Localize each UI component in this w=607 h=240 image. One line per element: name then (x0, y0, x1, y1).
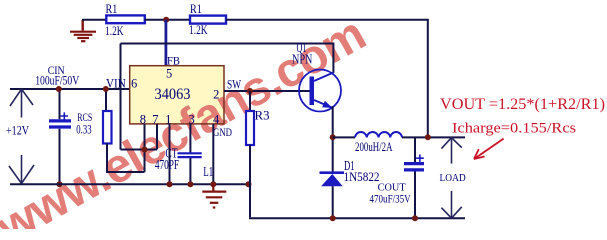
ground (top left) (70, 20, 96, 41)
wire bottom-left rail (10, 183, 249, 185)
wire Q1 collector rail (121, 44, 334, 74)
capacitor CIN (35, 63, 79, 185)
node gnd junction (210, 181, 216, 187)
source +12V (9, 89, 34, 184)
pin 1 stem (169, 124, 171, 184)
svg-text:34063: 34063 (155, 86, 191, 103)
resistor R1 (right) (189, 1, 226, 37)
pin 8 stem (144, 124, 146, 172)
svg-text:GND: GND (213, 125, 232, 139)
IC U1 34063 border and labels (106, 54, 241, 140)
load LOAD (441, 138, 461, 219)
node RCS top (103, 86, 109, 92)
wire FB vertical (164, 20, 167, 66)
wire pin8/pin7 link (121, 149, 158, 151)
wire VIN rail (10, 88, 130, 90)
resistor RCS (76, 89, 144, 172)
svg-text:L1: L1 (203, 164, 213, 179)
svg-text:NPN: NPN (292, 51, 313, 66)
node pin1 bottom (167, 181, 173, 187)
pin 4 stem (212, 124, 214, 184)
svg-text:VIN: VIN (106, 75, 126, 90)
node CIN bottom (57, 181, 63, 187)
transistor Q1 (292, 41, 341, 112)
node D1 anode (330, 215, 336, 221)
svg-text:5: 5 (166, 66, 172, 80)
svg-text:0.33: 0.33 (76, 122, 91, 137)
node output/VOUT (425, 134, 431, 140)
svg-text:470uF/35V: 470uF/35V (370, 191, 411, 205)
svg-text:Icharge=0.155/Rcs: Icharge=0.155/Rcs (452, 120, 576, 136)
inductor L1 200uH/2A (355, 132, 402, 154)
node CIN top (56, 86, 62, 92)
wire SW to base (224, 90, 311, 92)
wire VOUT feedback (top rail right + drop) (226, 20, 428, 138)
wire output rail (402, 136, 465, 138)
IC U1 34063 body fill (130, 66, 224, 124)
capacitor COUT (370, 137, 425, 218)
node SW/R3 (247, 88, 253, 94)
ground (bottom middle) (202, 184, 226, 207)
svg-text:R3: R3 (255, 108, 270, 123)
node pin8 junction (142, 147, 148, 153)
svg-text:1N5822: 1N5822 (344, 169, 380, 184)
node CT bottom (187, 181, 193, 187)
wire R1 to R1 (145, 19, 190, 21)
svg-text:R1: R1 (190, 1, 202, 16)
node COUT bottom (412, 215, 418, 221)
capacitor CT (155, 124, 202, 184)
svg-text:100uF/50V: 100uF/50V (35, 74, 79, 88)
node FB junction (163, 17, 169, 23)
svg-text:R1: R1 (106, 1, 118, 16)
svg-text:2: 2 (213, 88, 219, 102)
svg-text:1.2K: 1.2K (189, 22, 208, 37)
wire bottom-right rail (249, 217, 465, 219)
svg-text:FB: FB (167, 54, 180, 68)
svg-text:470PF: 470PF (155, 157, 180, 172)
svg-text:1.2K: 1.2K (105, 23, 124, 38)
diode D1 1N5822 (320, 158, 380, 218)
wire Q1 emitter to D1 (332, 106, 334, 172)
svg-text:200uH/2A: 200uH/2A (355, 140, 393, 154)
wire switch node to coil (333, 136, 355, 138)
pin 7 stem (156, 124, 158, 150)
svg-text:+12V: +12V (6, 122, 29, 137)
node switch (emitter/diode/coil) (330, 134, 336, 140)
resistor R3 (246, 91, 270, 217)
wire top rail (gnd to R1) (82, 19, 106, 21)
node R3 bottom-left rail (246, 181, 252, 187)
svg-text:VOUT =1.25*(1+R2/R1): VOUT =1.25*(1+R2/R1) (440, 96, 605, 113)
wire VIN-pin8 vertical (120, 44, 122, 150)
svg-text:LOAD: LOAD (440, 173, 467, 184)
svg-text:www.elecfans.com: www.elecfans.com (0, 7, 374, 229)
svg-text:6: 6 (131, 77, 137, 91)
svg-text:SW: SW (227, 78, 241, 92)
resistor R1 (left) (105, 1, 145, 38)
annotation arrow (474, 139, 504, 159)
